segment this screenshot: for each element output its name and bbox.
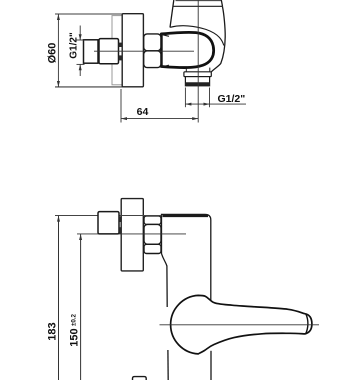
extension line top (O60 upper): [55, 13, 143, 15]
svg-text:150: 150: [69, 328, 81, 346]
bottom outlet (front view): [133, 377, 147, 380]
thread relief tab lower (front view): [119, 227, 122, 233]
body right edge (top view): [211, 6, 225, 72]
handle axis line (front view): [160, 324, 320, 326]
dimension G1/2 (outlet) extension lines: [184, 88, 186, 108]
lever handle (front view): [171, 295, 312, 354]
wall flange (top view): [122, 14, 143, 87]
hex nut (front view): [144, 216, 161, 254]
handle cap top edge (top view): [176, 0, 222, 2]
wall flange (front view): [121, 199, 143, 271]
dimension O60 line: [57, 14, 60, 87]
dimension 64 extension line: [120, 89, 122, 123]
dimension G1/2 (wall thread) extension lines: [77, 39, 85, 41]
outlet collar (top view): [184, 72, 211, 77]
eccentric connector (front view): [98, 212, 119, 234]
handle left edge (top view): [170, 0, 174, 28]
thread relief tab upper (front view): [119, 216, 122, 222]
body right edge below handle (front view): [210, 351, 212, 380]
body shell top arc (top view): [170, 26, 224, 46]
dimension 64 line: [121, 117, 198, 120]
body left taper (front view): [162, 254, 168, 308]
connector pipe A (top view, G1/2 thread): [84, 40, 99, 63]
dimension G1/2 (outlet) line: [185, 103, 246, 106]
extension line bottom (O60 lower): [55, 86, 143, 88]
handle cap line (top view): [173, 5, 223, 7]
outlet neck left edge (top view): [185, 68, 187, 72]
extension line 183 (front view): [55, 215, 162, 217]
svg-text:64: 64: [137, 106, 149, 118]
outlet thread dark band (top view): [185, 82, 210, 86]
cone transition upper (nut to boss): [161, 34, 169, 36]
dimension 150 line: [79, 234, 82, 380]
outlet neck right edge (top view): [209, 68, 211, 72]
dimension 183 line: [57, 216, 60, 380]
svg-text:G1/2": G1/2": [218, 93, 246, 105]
svg-text:G1/2": G1/2": [69, 32, 80, 59]
handle right edge (top view): [221, 0, 222, 6]
dimension G1/2 (wall thread) arrows: [79, 26, 82, 77]
thread relief tab upper (top view): [119, 43, 122, 47]
svg-text:183: 183: [47, 322, 59, 340]
hex nut (top view): [144, 34, 161, 68]
svg-text:±0.2: ±0.2: [71, 313, 78, 326]
body (front view): [162, 214, 211, 302]
outlet thread (top view): [185, 77, 209, 86]
body left edge below handle (front view): [167, 350, 169, 380]
vertical centerline (top view): [197, 0, 199, 123]
valve boss oval (top view, thick): [161, 32, 213, 67]
handle tip cap line (front view): [305, 314, 308, 335]
horizontal centerline (top view): [94, 50, 194, 52]
thread relief tab lower (top view): [119, 55, 122, 60]
svg-text:Ø60: Ø60: [47, 43, 59, 64]
body top thick edge (front view): [163, 215, 209, 217]
cone transition lower (nut to boss): [161, 65, 169, 67]
sleeve (union cover, top view): [112, 16, 123, 85]
inlet axis line (front view): [77, 233, 186, 235]
connector pipe B (top view): [99, 39, 119, 64]
